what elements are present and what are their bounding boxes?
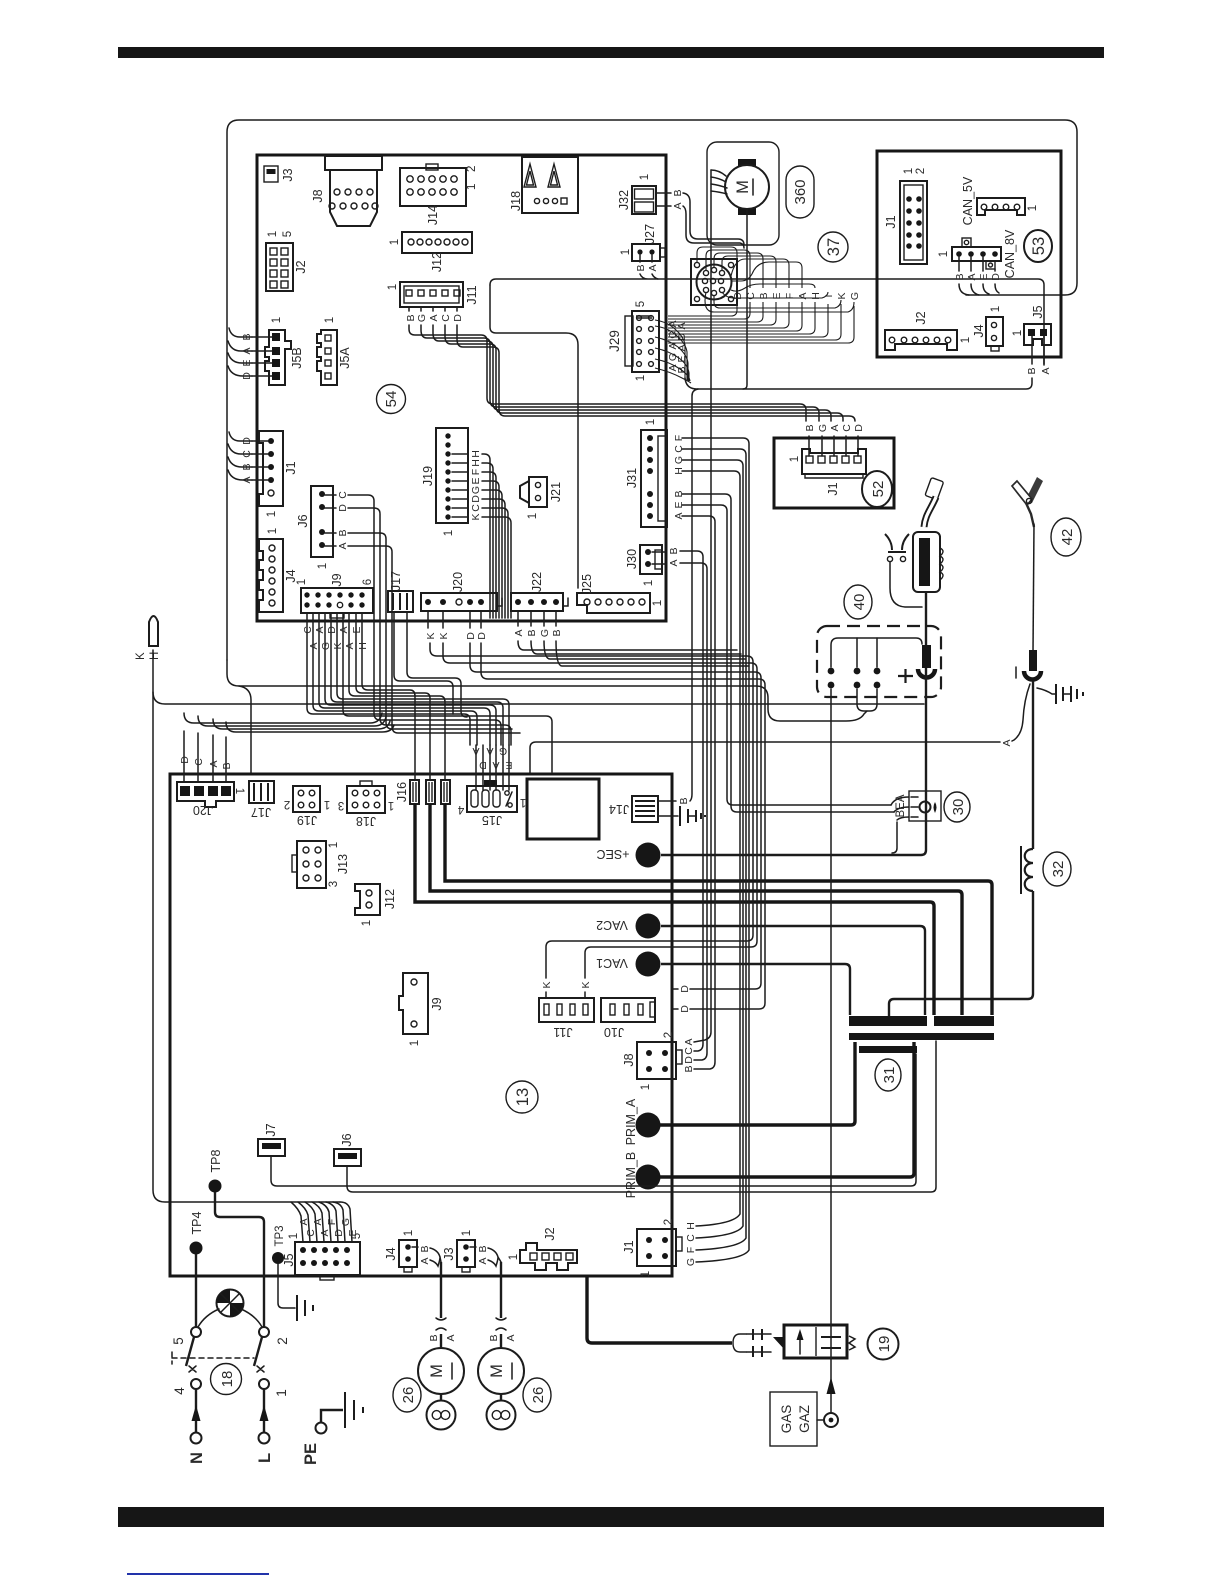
connector J18 (board 13) xyxy=(338,781,394,828)
svg-text:A: A xyxy=(428,314,440,321)
svg-text:J6: J6 xyxy=(296,514,310,527)
svg-text:D: D xyxy=(476,632,488,640)
svg-text:J7: J7 xyxy=(264,1123,278,1136)
svg-text:1: 1 xyxy=(938,251,950,257)
svg-text:G: G xyxy=(416,314,428,322)
motor winding feed arcs xyxy=(711,170,727,194)
svg-text:J29: J29 xyxy=(607,330,622,352)
svg-text:1: 1 xyxy=(233,788,245,794)
bus bottom run to igniter block xyxy=(227,660,867,721)
svg-text:1: 1 xyxy=(361,920,373,926)
connector J20 (board 13) xyxy=(177,782,245,817)
circled label 54 xyxy=(377,385,406,414)
svg-text:37: 37 xyxy=(825,238,843,256)
connector J29 xyxy=(607,301,688,381)
svg-text:1: 1 xyxy=(274,1389,289,1397)
circled label 18 xyxy=(211,1364,242,1395)
svg-text:1: 1 xyxy=(508,1254,520,1260)
svg-text:J21: J21 xyxy=(549,482,563,502)
wires J32 B/A to center drop xyxy=(656,193,744,248)
connector J18 xyxy=(509,157,578,213)
connector J27 xyxy=(620,224,665,272)
svg-text:E: E xyxy=(978,273,990,280)
wire electrode to fan and TP area xyxy=(153,650,924,1202)
panel lamp xyxy=(198,1290,262,1328)
connector J1 (board 13) xyxy=(622,438,749,1277)
svg-text:J20: J20 xyxy=(451,572,465,592)
wire igniter to +SEC xyxy=(661,668,926,855)
svg-text:C: C xyxy=(440,314,452,322)
svg-text:J11: J11 xyxy=(465,285,479,304)
module 52 box xyxy=(774,438,894,508)
connector CAN_5V xyxy=(961,176,1039,225)
svg-text:C: C xyxy=(683,1047,695,1055)
svg-text:2: 2 xyxy=(915,168,927,174)
svg-text:1: 1 xyxy=(288,1233,300,1239)
svg-text:J16: J16 xyxy=(395,782,409,802)
svg-text:D: D xyxy=(241,372,253,380)
wires connector 37 to J29 area xyxy=(668,302,854,343)
svg-text:D: D xyxy=(853,424,865,432)
svg-text:B: B xyxy=(477,1245,489,1252)
svg-text:1: 1 xyxy=(388,799,394,811)
svg-text:B: B xyxy=(241,463,253,470)
svg-text:H: H xyxy=(685,1222,697,1230)
svg-text:B: B xyxy=(419,1245,431,1252)
svg-text:1: 1 xyxy=(328,842,340,848)
svg-text:C: C xyxy=(841,424,853,432)
svg-text:A: A xyxy=(472,745,479,757)
terminal VAC1 xyxy=(596,952,850,1016)
svg-text:A: A xyxy=(477,1257,489,1264)
connector J6 (board 54) xyxy=(296,486,349,569)
connector J3 xyxy=(264,166,295,182)
wires into J15 with labels xyxy=(472,745,512,790)
connector J15 xyxy=(457,780,526,827)
svg-text:J3: J3 xyxy=(442,1247,456,1260)
svg-text:J9: J9 xyxy=(330,573,344,586)
svg-text:E: E xyxy=(505,759,512,771)
svg-text:1: 1 xyxy=(403,1230,415,1236)
circled label 30 xyxy=(944,792,970,822)
connector J9 xyxy=(296,573,374,618)
connector J8 xyxy=(311,156,382,226)
svg-text:G: G xyxy=(470,486,482,494)
svg-text:B: B xyxy=(526,629,538,636)
circled label 360 xyxy=(786,166,814,218)
choke coil 32 xyxy=(1021,846,1033,894)
svg-text:J19: J19 xyxy=(421,466,435,486)
wire bus drop into board 13 xyxy=(239,686,251,773)
svg-text:K: K xyxy=(438,632,450,639)
svg-text:D: D xyxy=(452,314,464,322)
svg-text:G: G xyxy=(817,424,829,432)
module 53 box xyxy=(877,151,1061,357)
svg-text:B: B xyxy=(954,273,966,280)
svg-text:J31: J31 xyxy=(625,468,639,488)
svg-text:F: F xyxy=(685,1247,697,1253)
svg-text:C: C xyxy=(337,491,349,499)
svg-text:J1: J1 xyxy=(284,461,298,474)
svg-text:J32: J32 xyxy=(617,190,631,210)
svg-text:A: A xyxy=(486,745,493,757)
svg-text:PRIM_A: PRIM_A xyxy=(624,1098,638,1145)
pump motor 26 left xyxy=(418,1262,464,1430)
svg-text:1: 1 xyxy=(635,375,647,381)
flame module BEA 30 xyxy=(682,494,941,853)
svg-text:B: B xyxy=(635,264,647,271)
svg-text:A: A xyxy=(337,542,349,549)
component J17 (board 13) xyxy=(249,781,274,819)
wire clip to transformer primary xyxy=(889,681,1033,1017)
svg-text:J5B: J5B xyxy=(290,347,304,369)
svg-text:J12: J12 xyxy=(430,252,444,272)
connector J5 (board 13) with harness xyxy=(282,1233,363,1280)
connector 37 harness loops and labels xyxy=(668,247,861,343)
svg-text:26: 26 xyxy=(400,1387,417,1404)
connector J4 (module 53) xyxy=(972,306,1003,351)
ignition transformer 31 xyxy=(849,1016,994,1053)
svg-text:M: M xyxy=(428,1364,446,1378)
svg-text:J11: J11 xyxy=(553,1025,572,1039)
terminal PRIM_A xyxy=(624,1042,855,1145)
svg-text:2: 2 xyxy=(284,798,290,810)
svg-text:J2: J2 xyxy=(543,1227,557,1240)
svg-text:3: 3 xyxy=(338,799,344,811)
gas line from unit 40 through valve xyxy=(824,689,838,1427)
J29 harness drop to module 53 xyxy=(655,320,1032,389)
terminal +SEC xyxy=(596,843,660,868)
svg-text:40: 40 xyxy=(851,594,868,611)
svg-text:1: 1 xyxy=(520,796,526,808)
svg-text:J10: J10 xyxy=(604,1025,624,1039)
svg-text:A: A xyxy=(672,202,684,209)
connector J5B xyxy=(241,317,304,385)
svg-text:1: 1 xyxy=(324,798,330,810)
svg-text:VAC1: VAC1 xyxy=(596,956,628,970)
svg-text:5: 5 xyxy=(171,1337,186,1345)
svg-text:H: H xyxy=(470,459,482,467)
svg-text:1: 1 xyxy=(387,284,399,290)
svg-text:4: 4 xyxy=(172,1387,187,1395)
svg-text:1: 1 xyxy=(409,1040,421,1046)
svg-text:J22: J22 xyxy=(530,572,544,592)
svg-text:19: 19 xyxy=(876,1336,893,1353)
svg-text:1: 1 xyxy=(640,1084,652,1090)
svg-text:CAN_8V: CAN_8V xyxy=(1003,229,1017,278)
wire J1-C to bus xyxy=(228,444,252,454)
svg-text:J14: J14 xyxy=(426,205,440,225)
svg-text:C: C xyxy=(745,292,757,300)
spark electrode symbol at igniter xyxy=(885,534,922,607)
svg-text:1: 1 xyxy=(652,600,664,606)
svg-text:A: A xyxy=(683,1038,695,1045)
svg-text:1: 1 xyxy=(267,231,279,237)
wire J1-D to bus xyxy=(229,432,252,441)
connector CAN_8V xyxy=(938,229,1017,295)
svg-text:K: K xyxy=(135,652,147,660)
gas valve feed wire xyxy=(587,1277,732,1343)
svg-text:J20: J20 xyxy=(193,803,213,817)
circled label 40 xyxy=(844,585,872,619)
svg-text:1: 1 xyxy=(317,563,329,569)
svg-text:K: K xyxy=(470,513,482,520)
connector J31 xyxy=(625,419,685,527)
connector J11 (board 13) xyxy=(539,998,594,1039)
svg-text:A: A xyxy=(1040,367,1052,374)
svg-text:G: G xyxy=(320,642,332,650)
svg-text:D: D xyxy=(179,756,191,764)
test point TP4 xyxy=(190,1211,205,1327)
svg-text:A: A xyxy=(338,626,350,633)
connector J19 (board 13) xyxy=(284,786,330,827)
svg-text:18: 18 xyxy=(219,1371,236,1388)
wire A to board 13 xyxy=(530,684,1030,773)
svg-text:K: K xyxy=(541,981,553,988)
circled label 53 xyxy=(1024,230,1052,262)
svg-text:K: K xyxy=(580,981,592,988)
svg-text:52: 52 xyxy=(870,481,887,498)
svg-text:J17: J17 xyxy=(389,571,403,591)
svg-text:J5A: J5A xyxy=(338,347,352,369)
svg-text:B: B xyxy=(1026,367,1038,374)
svg-text:J19: J19 xyxy=(297,813,317,827)
wire motor bottom to CAN line xyxy=(743,209,747,389)
svg-text:1: 1 xyxy=(620,249,632,255)
pump motor 26 right xyxy=(478,1262,524,1430)
svg-text:2: 2 xyxy=(663,1219,675,1225)
connector J14 xyxy=(400,164,478,225)
svg-text:2: 2 xyxy=(663,1032,675,1038)
svg-text:1: 1 xyxy=(639,174,651,180)
svg-text:B: B xyxy=(668,547,680,554)
svg-text:C: C xyxy=(241,450,253,458)
wire bundle J29 drop xyxy=(655,320,691,383)
svg-text:J18: J18 xyxy=(356,814,376,828)
svg-text:1: 1 xyxy=(466,184,478,190)
svg-text:D: D xyxy=(679,1005,691,1013)
svg-text:VAC2: VAC2 xyxy=(596,918,628,932)
svg-text:1: 1 xyxy=(271,317,283,323)
svg-text:1: 1 xyxy=(640,1271,652,1277)
svg-text:M: M xyxy=(734,180,752,194)
svg-text:J14: J14 xyxy=(609,802,629,816)
svg-text:A: A xyxy=(647,264,659,271)
svg-text:53: 53 xyxy=(1030,237,1048,255)
svg-text:A: A xyxy=(314,626,326,633)
wire loops connector 37 harness xyxy=(697,247,854,312)
svg-text:1: 1 xyxy=(324,317,336,323)
svg-text:GAS: GAS xyxy=(779,1405,794,1434)
wires J6 to lower fan xyxy=(325,495,520,745)
svg-text:D: D xyxy=(333,1229,345,1237)
svg-text:D: D xyxy=(241,437,253,445)
svg-text:J27: J27 xyxy=(643,224,657,244)
svg-text:D: D xyxy=(732,292,744,300)
svg-text:E: E xyxy=(351,626,363,633)
svg-text:13: 13 xyxy=(514,1088,532,1106)
circled label 42 xyxy=(1051,518,1081,556)
shield rectangle on board 13 xyxy=(527,779,599,839)
svg-text:32: 32 xyxy=(1050,861,1067,878)
svg-text:J2: J2 xyxy=(294,260,308,273)
svg-text:3: 3 xyxy=(328,881,340,887)
wire fan K line into J5 xyxy=(291,1202,359,1242)
svg-text:1: 1 xyxy=(1027,205,1039,211)
svg-text:TP3: TP3 xyxy=(274,1225,286,1246)
svg-text:30: 30 xyxy=(950,799,967,816)
svg-text:J5: J5 xyxy=(1031,305,1045,318)
svg-text:A: A xyxy=(492,759,499,771)
svg-text:C: C xyxy=(302,626,314,634)
svg-text:C: C xyxy=(470,504,482,512)
connector J16 xyxy=(395,780,450,804)
gas valve connector xyxy=(733,1329,784,1357)
svg-text:J3: J3 xyxy=(281,168,295,181)
svg-text:1: 1 xyxy=(645,419,657,425)
svg-text:A: A xyxy=(241,476,253,483)
svg-text:H: H xyxy=(357,642,369,650)
component J17 (board 54) xyxy=(388,571,467,717)
svg-text:J4: J4 xyxy=(384,1247,398,1260)
wire bundle J9 fan to J15/J16 xyxy=(302,613,552,780)
svg-text:M: M xyxy=(488,1364,506,1378)
svg-text:B: B xyxy=(551,629,563,636)
connector J13 xyxy=(292,841,350,888)
circled label 26 right xyxy=(523,1378,551,1412)
wire J27 to module 53 J5-A xyxy=(490,255,1044,588)
svg-text:A: A xyxy=(208,760,220,767)
svg-text:J30: J30 xyxy=(625,549,639,569)
svg-text:B: B xyxy=(678,797,690,804)
circular connector 37 xyxy=(691,259,737,305)
wires J11 to module 52 xyxy=(409,325,855,421)
svg-text:J5: J5 xyxy=(282,1253,296,1266)
circled label 32 xyxy=(1043,852,1071,886)
svg-text:F: F xyxy=(326,1219,338,1225)
svg-text:4: 4 xyxy=(457,803,464,815)
svg-text:J2: J2 xyxy=(914,311,928,324)
svg-text:L: L xyxy=(256,1453,274,1463)
control board 54 outline xyxy=(257,155,666,621)
earth clip 42 xyxy=(1012,477,1043,652)
svg-text:J1: J1 xyxy=(884,215,898,228)
svg-text:B: B xyxy=(221,762,233,769)
connector J32 xyxy=(617,174,684,214)
svg-text:A: A xyxy=(241,347,253,354)
svg-text:K: K xyxy=(425,632,437,639)
svg-text:B: B xyxy=(804,424,816,431)
test point TP8 xyxy=(209,1149,265,1327)
circled label 52 xyxy=(862,471,892,507)
GAS label box xyxy=(770,1392,824,1446)
connector J21 xyxy=(520,477,563,519)
svg-text:C: C xyxy=(685,1234,697,1242)
svg-text:J13: J13 xyxy=(336,854,350,874)
svg-text:1: 1 xyxy=(443,530,455,536)
svg-text:J4: J4 xyxy=(972,324,986,337)
connector J9 (board 13) xyxy=(399,973,444,1046)
svg-text:TP4: TP4 xyxy=(190,1211,204,1234)
svg-text:2: 2 xyxy=(466,166,478,172)
svg-text:1: 1 xyxy=(643,580,655,586)
igniter cable terminal xyxy=(918,645,935,678)
svg-text:E: E xyxy=(470,477,482,484)
svg-text:TP8: TP8 xyxy=(209,1149,223,1172)
svg-text:1: 1 xyxy=(1012,330,1024,336)
connector J2 (module 53) xyxy=(885,311,972,350)
svg-text:D: D xyxy=(683,1056,695,1064)
svg-text:1: 1 xyxy=(789,456,801,462)
svg-text:D: D xyxy=(337,504,349,512)
svg-text:J12: J12 xyxy=(383,889,397,909)
svg-text:B: B xyxy=(241,333,253,340)
circled label 37 xyxy=(818,232,848,262)
svg-text:J18: J18 xyxy=(509,191,523,211)
svg-text:H: H xyxy=(149,652,161,660)
wires D D from J10 area up to J20 D D xyxy=(470,643,765,1013)
svg-text:A: A xyxy=(1001,739,1013,746)
connector J2 xyxy=(266,231,308,291)
svg-text:1: 1 xyxy=(389,239,401,245)
svg-text:J6: J6 xyxy=(340,1133,354,1146)
gas valve 19 xyxy=(784,1325,855,1358)
svg-text:1: 1 xyxy=(461,1230,473,1236)
ignition unit 40 dashed box xyxy=(817,626,941,711)
circled label 31 xyxy=(875,1059,901,1091)
connector J10 (board 13) xyxy=(601,998,655,1039)
svg-text:A: A xyxy=(676,322,688,329)
svg-text:A: A xyxy=(513,629,525,636)
svg-text:J1: J1 xyxy=(622,1240,636,1253)
svg-text:D: D xyxy=(679,985,691,993)
terminal PRIM_B xyxy=(624,1042,914,1198)
terminal VAC2 xyxy=(596,914,925,1016)
wire J1-A to bus xyxy=(228,470,252,480)
svg-text:J8: J8 xyxy=(622,1053,636,1066)
svg-text:A: A xyxy=(445,1334,457,1341)
svg-text:1: 1 xyxy=(990,306,1002,312)
component J6 (board 13) xyxy=(334,1041,936,1192)
svg-text:J25: J25 xyxy=(580,574,594,594)
svg-text:C: C xyxy=(193,758,205,766)
svg-text:CAN_5V: CAN_5V xyxy=(961,176,975,225)
svg-text:1: 1 xyxy=(527,513,539,519)
svg-text:A: A xyxy=(344,642,356,649)
svg-text:54: 54 xyxy=(383,391,400,408)
circled label 26 left xyxy=(393,1378,421,1412)
svg-text:B: B xyxy=(683,1065,695,1072)
svg-text:C: C xyxy=(305,1229,317,1237)
circled label 13 xyxy=(506,1081,538,1113)
wire J5B-B to bus xyxy=(229,328,252,337)
svg-text:K: K xyxy=(332,642,344,649)
wires J19 fan xyxy=(452,454,511,618)
connector J14 (board 13) xyxy=(609,389,705,826)
svg-text:A: A xyxy=(668,559,680,566)
svg-text:G: G xyxy=(685,1258,697,1266)
protective earth PE xyxy=(302,1392,363,1465)
svg-text:G: G xyxy=(499,745,507,757)
main board 13 outline xyxy=(170,774,672,1276)
svg-text:42: 42 xyxy=(1059,529,1076,546)
svg-text:J15: J15 xyxy=(482,813,502,827)
svg-text:26: 26 xyxy=(530,1387,547,1404)
connector J19 xyxy=(421,428,482,536)
test point TP3 xyxy=(272,1225,313,1321)
svg-text:6: 6 xyxy=(362,579,374,585)
svg-text:A: A xyxy=(966,273,978,280)
